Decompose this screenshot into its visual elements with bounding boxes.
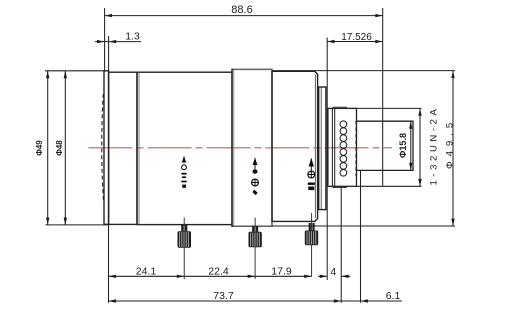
thumb screw 3 [305,223,318,245]
rear barrel section [272,71,318,221]
hidden thread line (dashed) [355,121,357,177]
svg-text:17.526: 17.526 [341,32,372,43]
dim 1.3 [108,36,110,71]
focus ring Φ49.5 [232,69,272,226]
dim 22.4 [184,275,255,277]
thumb screw 2 [249,226,262,247]
bottom extension lines [108,225,110,303]
svg-text:4: 4 [330,266,336,278]
svg-text:Φ49: Φ49 [35,140,44,156]
centerline (red optical axis) [89,147,393,149]
dim 1-32UN-2A [419,108,421,186]
dim Φ49 [47,71,49,225]
dim 73.7 [109,300,342,302]
svg-text:24.1: 24.1 [136,265,157,277]
svg-text:Φ49.5: Φ49.5 [445,118,456,169]
svg-text:1-32UN-2A: 1-32UN-2A [429,106,440,186]
svg-text:Φ15.8: Φ15.8 [398,133,408,158]
marking column 1 [181,156,186,188]
hidden lens contour (dashed) [102,94,104,202]
svg-text:73.7: 73.7 [213,290,234,302]
dim 4 (outside arrows) [318,275,327,277]
dim 1-32UN-2A extension lines [347,107,422,109]
marking column 2 [252,158,259,196]
C-mount threaded barrel [328,108,357,186]
front bezel ring Φ49 [104,71,109,225]
rear cylinder (image side) [357,121,413,170]
dim 6.1 (outside arrows) [341,300,402,302]
svg-text:1.3: 1.3 [125,30,140,42]
mid barrel section [137,72,232,224]
svg-text:6.1: 6.1 [386,290,401,302]
thumb screw 1 [178,225,192,248]
dim Φ49.5 extension lines [272,70,455,72]
mount flange ring [319,87,326,210]
thread circles column [340,121,347,176]
dim Φ49 / Φ48 extension lines [45,70,104,72]
dim 17.526 [326,38,328,281]
front barrel Φ48 [109,72,137,224]
dim 24.1 [109,275,185,277]
dim Φ15.8 [410,121,412,170]
svg-text:Φ48: Φ48 [55,140,64,156]
screw centerline extensions [183,218,185,280]
thread collar [332,108,334,186]
dim Φ49.5 [452,71,454,226]
svg-text:22.4: 22.4 [208,265,229,277]
dim 88.6 [105,15,383,17]
dim 88.6 extension lines [104,8,106,71]
dim Φ48 [64,71,66,225]
svg-text:88.6: 88.6 [231,4,252,16]
svg-text:17.9: 17.9 [271,265,292,277]
dim 17.9 [255,275,312,277]
marking column 3 [308,158,315,190]
